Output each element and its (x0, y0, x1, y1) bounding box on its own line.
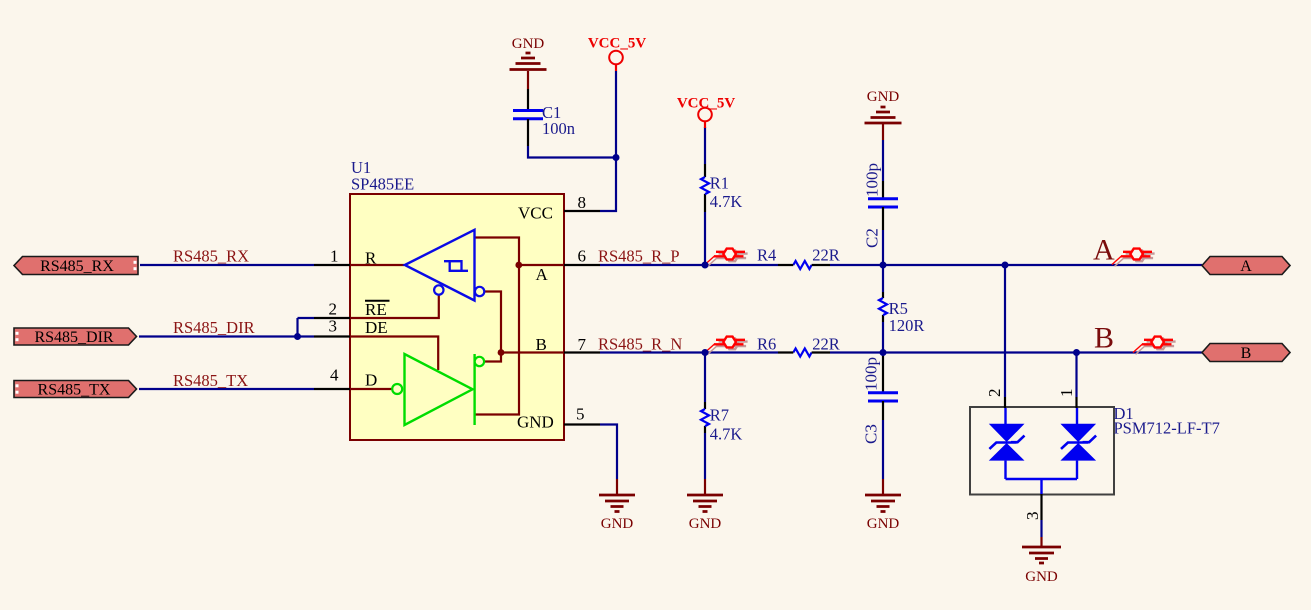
svg-text:A: A (1093, 234, 1115, 267)
diff pair directive on B (1133, 337, 1176, 355)
driver input bubble (392, 384, 402, 394)
wire RS485_R_P net (600, 127, 1202, 397)
junction C2/R_P (880, 262, 887, 269)
svg-text:2: 2 (985, 389, 1004, 398)
svg-text:22R: 22R (812, 245, 840, 264)
ground symbol above C1 (510, 36, 547, 89)
ground symbol below pin5 (599, 479, 635, 532)
wire RS485_TX net (139, 388, 314, 390)
pin 7 of U1 (564, 351, 600, 353)
svg-text:C3: C3 (862, 424, 881, 444)
power port VCC_5V (top) (588, 36, 646, 72)
svg-text:RS485_TX: RS485_TX (173, 371, 248, 390)
svg-text:GND: GND (689, 516, 722, 532)
svg-text:RS485_TX: RS485_TX (38, 382, 111, 399)
TVS diode right inside D1 (1060, 408, 1096, 479)
pin 8 of U1 (564, 210, 600, 212)
svg-text:1: 1 (1057, 389, 1076, 398)
svg-text:1: 1 (330, 247, 339, 266)
svg-text:R4: R4 (757, 245, 776, 264)
driver amp inside U1 (405, 354, 475, 425)
pin 3 of U1 (314, 335, 350, 337)
svg-text:R7: R7 (710, 406, 729, 425)
U1 internal wire RE (350, 295, 439, 318)
wire D1 pin3 to GND (1040, 520, 1042, 537)
U1 internal wire D (350, 388, 392, 390)
diff pair directive on RS485_R_N (705, 337, 748, 355)
TVS diode left inside D1 (989, 408, 1025, 479)
ground symbol above C2 (865, 89, 902, 140)
port RS485_RX (14, 257, 138, 276)
junction on DIR/DE riser (294, 333, 301, 340)
svg-text:4: 4 (330, 366, 339, 385)
D1 internal bottom wire (1006, 479, 1078, 494)
power port VCC_5V (above R1) (677, 96, 735, 129)
svg-text:6: 6 (578, 247, 587, 266)
svg-text:RS485_R_P: RS485_R_P (598, 247, 680, 266)
svg-text:GND: GND (601, 516, 634, 532)
svg-text:GND: GND (867, 516, 900, 532)
junction R1/R_P (702, 262, 709, 269)
svg-text:100p: 100p (862, 357, 881, 391)
junction C3/R_N (880, 349, 887, 356)
svg-text:GND: GND (1025, 569, 1058, 585)
svg-text:C2: C2 (863, 228, 882, 248)
TVS array D1 box (970, 407, 1114, 495)
svg-text:VCC_5V: VCC_5V (588, 36, 646, 52)
svg-text:GND: GND (517, 413, 554, 432)
svg-text:R1: R1 (710, 173, 729, 192)
svg-text:120R: 120R (889, 316, 925, 335)
svg-text:RS485_DIR: RS485_DIR (173, 318, 255, 337)
pin 1 of U1 (314, 264, 350, 266)
svg-text:22R: 22R (812, 334, 840, 353)
D1 pin 2 lead (1004, 397, 1006, 408)
receiver amp inside U1 (405, 230, 475, 301)
svg-text:A: A (1240, 258, 1252, 275)
svg-text:100p: 100p (863, 163, 882, 197)
svg-text:8: 8 (578, 193, 587, 212)
svg-text:RS485_R_N: RS485_R_N (598, 335, 682, 354)
svg-text:VCC: VCC (518, 204, 553, 223)
svg-text:DE: DE (365, 318, 388, 337)
capacitor C1 (513, 89, 575, 146)
svg-text:3: 3 (329, 317, 338, 336)
svg-text:4.7K: 4.7K (710, 192, 743, 211)
junction D1/R_N (1073, 349, 1080, 356)
U1 internal wire DE (350, 337, 438, 371)
U1 internal wire B net (484, 292, 564, 362)
U1 internal wire A net (475, 238, 565, 415)
wire RS485_DIR net (139, 318, 314, 337)
wire RS485_R_N net (600, 322, 1202, 479)
pin 5 of U1 (564, 423, 600, 425)
diff pair directive on A (1112, 249, 1155, 267)
svg-text:GND: GND (512, 36, 545, 52)
svg-text:RS485_RX: RS485_RX (40, 258, 114, 275)
wire GND net (pin5) (600, 425, 617, 480)
ground symbol below R7 (687, 479, 723, 532)
port RS485_DIR (14, 328, 137, 346)
svg-text:RS485_DIR: RS485_DIR (34, 329, 113, 346)
port B (1202, 344, 1290, 363)
svg-text:SP485EE: SP485EE (351, 175, 414, 194)
pin 2 of U1 (314, 317, 350, 319)
D1 pin 1 lead (1075, 397, 1077, 408)
port RS485_TX (14, 381, 137, 399)
svg-text:PSM712-LF-T7: PSM712-LF-T7 (1114, 419, 1220, 438)
svg-text:R6: R6 (757, 334, 776, 353)
svg-text:VCC_5V: VCC_5V (677, 96, 735, 112)
svg-text:4.7K: 4.7K (710, 425, 743, 444)
capacitor C3 (862, 354, 899, 444)
wire VCC net (pin8 to VCC_5V and C1) (528, 71, 616, 211)
svg-text:R: R (365, 249, 377, 268)
svg-text:D: D (365, 371, 377, 390)
resistor R1 (701, 164, 742, 212)
port A (1202, 257, 1290, 276)
U1 internal junction on A (515, 262, 522, 269)
receiver B input bubble (475, 287, 484, 296)
diff pair directive on RS485_R_P (705, 249, 748, 267)
svg-text:A: A (536, 265, 549, 284)
svg-text:B: B (536, 335, 547, 354)
resistor R5 (879, 292, 924, 335)
svg-text:B: B (1241, 345, 1252, 362)
wire RS485_RX net (140, 264, 314, 266)
U1 internal wire R (350, 264, 404, 266)
junction D1/R_P (1002, 262, 1009, 269)
receiver enable bubble (434, 285, 443, 294)
driver inverted output bubble (475, 357, 484, 366)
D1 pin 3 lead (1040, 494, 1042, 520)
pin 6 of U1 (564, 264, 600, 266)
svg-text:100n: 100n (542, 119, 575, 138)
resistor R6 (757, 334, 840, 356)
junction R7/R_N (702, 349, 709, 356)
svg-text:RS485_RX: RS485_RX (173, 247, 249, 266)
ground symbol below D1 (1022, 537, 1061, 585)
svg-text:7: 7 (578, 335, 587, 354)
U1 internal junction on B (498, 349, 505, 356)
capacitor C2 (863, 140, 899, 248)
svg-text:3: 3 (1023, 512, 1042, 521)
resistor R4 (757, 245, 840, 269)
receiver hysteresis glyph (444, 261, 468, 271)
svg-text:5: 5 (576, 405, 585, 424)
junction VCC/C1 (613, 154, 620, 161)
svg-text:RE: RE (365, 300, 387, 319)
op-amp U1 body (SP485EE) (350, 194, 564, 440)
svg-text:GND: GND (867, 89, 900, 105)
ground symbol below C3 (865, 479, 901, 532)
resistor R7 (701, 402, 742, 444)
pin 4 of U1 (314, 388, 350, 390)
svg-text:B: B (1094, 322, 1114, 355)
